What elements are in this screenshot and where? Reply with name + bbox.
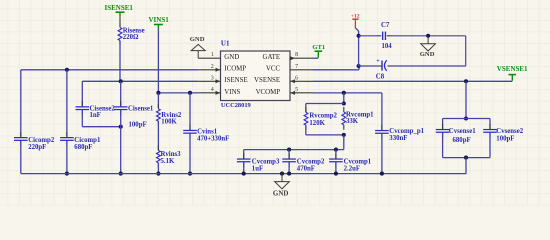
wire Cvcomp2 lower (288, 163, 290, 174)
wire VINS1 down to VINS line (157, 29, 159, 93)
svg-text:680pF: 680pF (74, 144, 92, 151)
wire Cisense to bus (120, 127, 122, 174)
wire Cvsense2 upper (489, 119, 491, 130)
wire Rvins3 to bus (157, 163, 159, 174)
wire Cisense2 lower (81, 111, 83, 127)
svg-text:GT1: GT1 (312, 44, 325, 51)
svg-text:GND: GND (190, 36, 205, 43)
pin 4 stub (198, 92, 220, 94)
capacitor Cvsense1 (442, 124, 444, 130)
wire pin8 to GT1 (313, 57, 318, 59)
capacitor Cicomp1 (66, 132, 68, 138)
junction GND stem top (426, 34, 430, 38)
capacitor Cvins1 (189, 125, 191, 131)
capacitor Cvcomp3 (243, 153, 245, 159)
svg-text:4: 4 (211, 87, 214, 93)
wire pin7 VCC (313, 69, 359, 71)
wire to C7 (359, 35, 377, 37)
wire C7 to corner (387, 35, 392, 37)
junction Cvcomp2 bus (287, 172, 291, 176)
junction Cisense box bottom (119, 125, 123, 129)
wire Cisense2 upper (81, 81, 83, 106)
wire Rvcomp2 lower (305, 125, 307, 135)
svg-text:UCC28019: UCC28019 (221, 102, 251, 109)
svg-text:C7: C7 (381, 22, 390, 29)
svg-text:100pF: 100pF (496, 135, 514, 142)
junction Cvins1 bus (188, 172, 192, 176)
capacitor Cvsense2 (489, 124, 491, 130)
svg-text:2: 2 (211, 64, 214, 70)
port GT1 (315, 50, 323, 52)
wire C8 left (378, 65, 383, 67)
wire C8 right (393, 65, 466, 67)
wire Rvins2 to Rvins3 (157, 121, 159, 150)
junction +12 node (357, 34, 361, 38)
junction VINS1-divider (156, 91, 160, 95)
resistor Rvcomp2 (305, 107, 307, 112)
pin 8 output arrow (290, 56, 295, 60)
svg-text:VCOMP: VCOMP (256, 89, 281, 96)
svg-text:470nF: 470nF (297, 165, 315, 172)
wire VINS line (158, 92, 198, 94)
junction Cvcomp1 rail (334, 148, 338, 152)
wire Rvcomp2 upper (305, 104, 307, 113)
wire ground bus (21, 173, 467, 175)
port VINS1 (154, 24, 163, 26)
svg-text:120K: 120K (309, 120, 325, 127)
port ISENSE1 (116, 11, 125, 13)
resistor Rvcomp1 (343, 107, 345, 112)
junction Rvins3 bus (156, 172, 160, 176)
pin 3 stub (198, 80, 220, 82)
wire pin5 VCOMP (313, 92, 382, 94)
wire Cvins1 lower (189, 134, 191, 174)
wire Cvsense to bus (465, 158, 467, 174)
wire Cvsense2 lower (489, 133, 491, 158)
pin input arrow (216, 91, 221, 95)
svg-text:GATE: GATE (262, 54, 280, 61)
wire Rvcomp to Cvcomp rail (343, 135, 345, 150)
svg-text:2.2uF: 2.2uF (344, 165, 360, 172)
svg-text:Cvcomp2: Cvcomp2 (297, 158, 325, 165)
wire Cvcomp1 lower (335, 163, 337, 174)
pin 6 stub (290, 80, 313, 82)
wire Rvcomp box top (306, 103, 344, 105)
capacitor Cvcomp1 (335, 153, 337, 159)
wire ISENSE line (82, 80, 198, 82)
pin input arrow (290, 91, 295, 95)
junction Cvcomp_p1 bus (380, 172, 384, 176)
pin input arrow (216, 68, 221, 72)
wire Cvsense drop (465, 81, 467, 118)
capacitor Cisense2 (81, 101, 83, 107)
junction Cvins1 top (188, 91, 192, 95)
svg-text:Cvcomp1: Cvcomp1 (344, 158, 372, 165)
wire Cvcomp3 upper (243, 150, 245, 159)
wire Cvsense box top (443, 118, 490, 120)
svg-text:3: 3 (211, 75, 214, 81)
junction Cicomp1 top (65, 68, 69, 72)
svg-text:GND: GND (273, 190, 289, 198)
svg-text:C8: C8 (376, 73, 385, 80)
svg-text:+: + (376, 58, 380, 64)
svg-text:ISENSE1: ISENSE1 (105, 4, 134, 12)
wire Cvcomp3 lower (243, 163, 245, 174)
svg-text:VSENSE: VSENSE (254, 77, 280, 84)
pin 1 stub (198, 57, 220, 59)
svg-text:220pF: 220pF (28, 144, 46, 151)
op-amp U1 body (221, 51, 291, 101)
svg-text:104: 104 (382, 43, 393, 50)
svg-text:1: 1 (211, 52, 214, 58)
pin 5 stub (290, 92, 313, 94)
junction Risense-ISENSE (119, 79, 123, 83)
svg-text:VSENSE1: VSENSE1 (497, 65, 528, 73)
svg-text:Rvcomp2: Rvcomp2 (309, 113, 337, 120)
wire Cvsense box bottom (443, 157, 490, 159)
power ground GND (pin1) (191, 44, 205, 50)
wire Cicomp1 upper (66, 70, 68, 137)
svg-text:Cvsense2: Cvsense2 (496, 128, 523, 135)
svg-text:VINS: VINS (224, 89, 240, 96)
junction Cvcomp3 bus (242, 172, 246, 176)
capacitor C8 (381, 61, 383, 71)
svg-text:1uF: 1uF (252, 165, 263, 172)
junction VSENSE-Cvsense (464, 79, 468, 83)
capacitor Cvcomp2 (288, 153, 290, 159)
wire Cicomp1 lower (66, 141, 68, 173)
svg-text:VCC: VCC (266, 66, 281, 73)
junction Rvcomp box bottomright (342, 133, 346, 137)
junction Cvsense box bottom (464, 156, 468, 160)
wire Cisense box bottom (82, 126, 120, 128)
wire Cisense1 lower (120, 111, 122, 127)
svg-text:680pF: 680pF (453, 137, 471, 144)
wire ICOMP line (21, 69, 198, 71)
svg-text:Cvins1: Cvins1 (197, 128, 218, 135)
junction Cicomp1 bus (65, 172, 69, 176)
wire C7 right down (465, 36, 467, 66)
wire Cvcomp_p1 lower (381, 134, 383, 174)
wire Rvcomp box bottom (306, 134, 344, 136)
wire VINS to Rvins2 (157, 93, 159, 108)
power +12 bar (352, 18, 358, 20)
svg-text:1nF: 1nF (90, 112, 101, 119)
svg-text:VINS1: VINS1 (149, 16, 170, 24)
svg-text:GND: GND (420, 51, 435, 58)
wire Cvcomp2 upper (288, 150, 290, 159)
wire Cvins1 upper (189, 93, 191, 130)
pin 2 stub (198, 69, 220, 71)
svg-text:33K: 33K (346, 118, 359, 125)
wire Cisense1 upper (120, 81, 122, 106)
capacitor Cvcomp_p1 (381, 125, 383, 131)
power ground GND (C7) (427, 36, 429, 44)
junction VCOMP-Rvcomp (342, 91, 346, 95)
pin 7 stub (290, 69, 313, 71)
wire Cvcomp1 upper (335, 150, 337, 159)
pin 8 stub (290, 57, 313, 59)
resistor Rvins2 (157, 104, 159, 109)
svg-text:Cvsense1: Cvsense1 (449, 128, 476, 135)
svg-text:5.1K: 5.1K (161, 158, 175, 165)
wire Cvsense1 lower (442, 133, 444, 158)
wire Rvcomp drop (343, 93, 345, 104)
svg-text:330nF: 330nF (389, 135, 407, 142)
svg-text:220Ω: 220Ω (123, 34, 139, 41)
svg-text:100pF: 100pF (129, 121, 147, 128)
junction Rvcomp box topright (342, 101, 346, 105)
junction VCC node (357, 64, 361, 68)
resistor Rvins3 (157, 145, 159, 150)
junction GND bus (280, 172, 284, 176)
capacitor C7 (382, 32, 384, 40)
wire Cicomp2 upper (20, 70, 22, 137)
svg-text:7: 7 (295, 64, 298, 70)
port VSENSE1 (509, 74, 517, 76)
wire Cvsense1 upper (442, 119, 444, 130)
wire VCOMP corner down (381, 93, 383, 130)
pin input arrow (216, 79, 221, 83)
svg-text:8: 8 (295, 52, 298, 58)
svg-text:ICOMP: ICOMP (224, 66, 246, 73)
svg-text:Cisense1: Cisense1 (128, 106, 154, 113)
svg-text:470+330nF: 470+330nF (197, 136, 229, 143)
capacitor Cisense1 (120, 101, 122, 107)
pin input arrow (290, 79, 295, 83)
wire +12 down (355, 28, 358, 31)
svg-text:U1: U1 (221, 40, 230, 48)
wire Cicomp2 lower (20, 141, 22, 173)
wire pin6 VSENSE (313, 80, 512, 82)
svg-text:100K: 100K (161, 119, 177, 126)
svg-text:6: 6 (295, 75, 298, 81)
junction Cisense bus (119, 172, 123, 176)
junction Cvcomp2 rail (287, 148, 291, 152)
power ground GND (bus) (281, 174, 283, 182)
capacitor Cicomp2 (20, 132, 22, 138)
svg-text:GND: GND (224, 54, 239, 61)
resistor Risense (119, 23, 121, 28)
svg-text:Cvcomp3: Cvcomp3 (252, 158, 280, 165)
svg-text:5: 5 (295, 87, 298, 93)
junction Cvsense box top (464, 116, 468, 120)
wire ISENSE1 to Risense (119, 17, 121, 27)
wire Risense to ISENSE line (119, 41, 121, 82)
svg-text:ISENSE: ISENSE (224, 77, 247, 84)
junction Cvcomp1 bus (334, 172, 338, 176)
